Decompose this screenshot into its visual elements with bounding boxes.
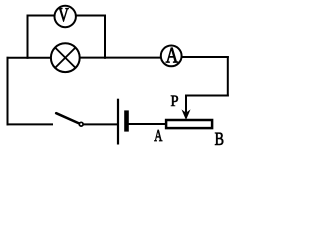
label B (rheostat right end) — [215, 133, 223, 145]
lamp L — [51, 43, 80, 72]
wire left outer horizontal — [7, 57, 51, 59]
battery cell — [118, 99, 127, 145]
voltmeter V — [54, 6, 75, 27]
wire top-left horizontal to voltmeter — [28, 15, 55, 17]
wire voltmeter to right branch corner — [77, 15, 107, 17]
wire lamp to ammeter — [80, 57, 161, 59]
ammeter A — [161, 46, 182, 67]
label P — [171, 96, 178, 106]
wire switch to battery — [84, 123, 118, 125]
wire left branch vertical — [27, 15, 29, 59]
wire battery to rheostat — [129, 123, 166, 125]
wire right branch vertical — [104, 15, 106, 59]
wire right outer vertical — [227, 56, 229, 97]
slider arrow P — [182, 95, 189, 120]
label A (rheostat left end) — [154, 130, 162, 141]
switch S — [56, 113, 83, 126]
rheostat body — [166, 120, 212, 128]
wire bottom-left to switch — [7, 123, 54, 125]
wire right to slider arrow — [185, 95, 229, 97]
wire ammeter to right corner — [182, 56, 229, 58]
wire left outer vertical — [7, 57, 9, 126]
